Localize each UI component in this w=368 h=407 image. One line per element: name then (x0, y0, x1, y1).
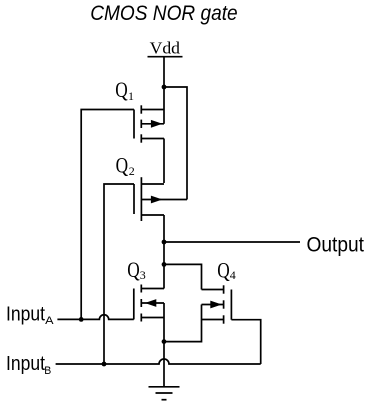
svg-text:Vdd: Vdd (150, 39, 181, 58)
label Q2 (116, 152, 135, 178)
wire Q2 gate to InputB riser (104, 184, 134, 364)
wire output (164, 241, 300, 243)
label InputA (6, 303, 55, 327)
wire Vdd node to Q2 body (164, 87, 187, 200)
svg-text:4: 4 (230, 268, 236, 282)
label InputB (6, 352, 51, 377)
svg-text:B: B (44, 365, 51, 377)
svg-text:Q: Q (127, 257, 140, 282)
wire output node to Q4 drain (164, 264, 202, 289)
svg-text:Output: Output (307, 233, 365, 257)
wire Q4 body/source to ground node (164, 305, 202, 342)
svg-text:Q: Q (116, 152, 129, 177)
wire ground (163, 342, 165, 387)
svg-text:1: 1 (128, 89, 134, 103)
wire Q3 body/source to ground node (163, 303, 165, 342)
wire Q2 drain to Q3 drain (output node) (163, 215, 165, 289)
transistor Q1 (PMOS) (134, 105, 164, 142)
wire InputB with hop over ground wire (56, 359, 261, 364)
node output junction (162, 240, 167, 245)
svg-text:Input: Input (6, 352, 45, 375)
wire Q2 body stub to Vdd riser (164, 199, 187, 201)
svg-text:A: A (45, 315, 54, 327)
power rail Vdd (148, 39, 183, 58)
wire Q1 gate to InputA riser (81, 110, 134, 320)
svg-text:2: 2 (129, 164, 135, 178)
label Q4 (217, 258, 236, 283)
svg-text:Input: Input (6, 303, 45, 326)
wire Vdd rail to Q1 source/body (163, 57, 165, 124)
ground (149, 387, 180, 400)
wire Q1 drain to Q2 source (163, 139, 165, 184)
transistor Q4 (NMOS, mirrored) (202, 285, 232, 323)
svg-text:Q: Q (115, 77, 128, 102)
node InputB junction (102, 362, 107, 367)
transistor Q2 (PMOS) (134, 177, 164, 221)
node Vdd junction (162, 85, 167, 90)
transistor Q3 (NMOS) (134, 285, 164, 322)
label Q1 (115, 77, 134, 103)
wire Q4 gate to InputB (231, 320, 260, 364)
svg-text:3: 3 (140, 268, 146, 282)
node Q4 drain junction (162, 262, 167, 267)
label Q3 (127, 257, 146, 282)
node InputA junction (79, 317, 84, 322)
svg-text:Q: Q (217, 258, 230, 283)
wire InputA with hop over InputB riser (57, 315, 133, 320)
svg-text:CMOS NOR gate: CMOS NOR gate (90, 2, 238, 25)
node ground junction (162, 339, 167, 344)
